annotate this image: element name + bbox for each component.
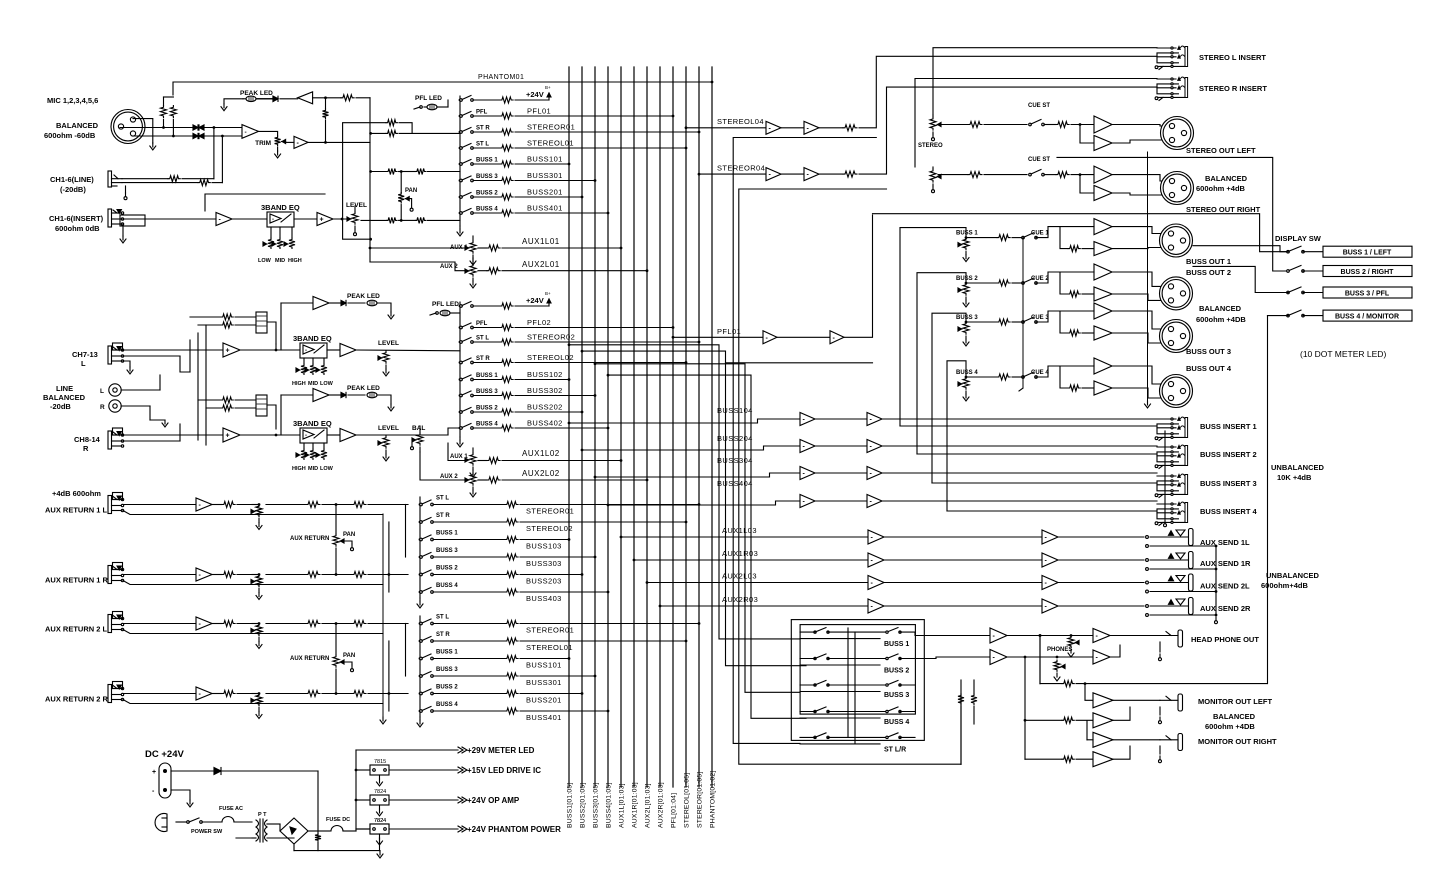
svg-text:STEREOL01: STEREOL01 [527,139,574,148]
svg-text:PHONES: PHONES [1047,647,1072,653]
wire [1036,366,1060,377]
svg-text:BUSS202: BUSS202 [527,403,563,412]
resistor send BUSS202 [500,409,513,415]
svg-text:UNBALANCED: UNBALANCED [1266,571,1319,580]
op-amp AUX RETURN 2 L buffer [196,617,212,630]
resistor BUSS301 [505,673,518,679]
led PFL ch1 [427,104,437,110]
resistor AUX RETURN 1 L a [306,502,320,508]
ground xlr pin1 [133,119,153,143]
op-amp peak ch8 [281,394,313,396]
wire [1113,739,1160,741]
wire BUSS 1 [966,237,997,239]
wire AUX2R03 to jack [1058,605,1144,607]
svg-text:BUSS401: BUSS401 [526,713,562,722]
wire AUX2L03 [646,581,649,584]
wire [368,574,408,576]
wire [900,684,915,686]
ground AUX RETURN 1 R sleeve [123,581,383,585]
wire send row PFL02 [473,327,500,329]
svg-text:STEREOL04: STEREOL04 [717,117,764,126]
wire send bank rail [459,96,461,226]
op-amp PFL b [830,331,844,344]
svg-text:BUSS 3: BUSS 3 [436,548,458,554]
switch return BUSS103 [419,538,422,541]
wire [333,218,350,220]
wire [356,349,460,352]
wire AUX1R03 to jack [1058,559,1144,561]
svg-text:AUX SEND 1R: AUX SEND 1R [1200,559,1251,568]
svg-text:BUSS 1: BUSS 1 [956,231,978,237]
resistor AUX RETURN 2 R a [306,691,320,697]
wire aux1 row ch2 [448,443,466,461]
wire send row STEREOR01 [473,131,500,133]
op-amp AUX1R03 a [868,553,884,567]
svg-text:PFL: PFL [476,110,488,116]
wire [1112,388,1166,398]
svg-text:BUSS 3: BUSS 3 [956,315,978,321]
svg-text:+: + [320,217,324,224]
wire [212,693,222,695]
potentiometer AUX RETURN 2 R level [258,692,261,695]
wire aux1 fan B [388,522,390,592]
wire [212,574,222,576]
resistor send PFL01 [500,113,513,119]
op-amp buss4 insert a [800,495,815,508]
wire [123,574,196,576]
resistor net ch7 b [198,324,221,326]
svg-text:-: - [245,129,247,136]
resistor aux1 ch2 [487,458,500,464]
ground level [354,229,356,233]
diode pair D1 [193,125,198,130]
potentiometer stereo L fader [932,115,934,117]
wire buss4 return riser [947,361,966,511]
svg-text:BUSS 4: BUSS 4 [884,719,909,726]
svg-text:3BAND EQ: 3BAND EQ [293,334,332,343]
svg-text:BUSS 1 / LEFT: BUSS 1 / LEFT [1343,250,1392,257]
op-amp BUSS 3 out hot [1094,303,1112,319]
wire monitor feed L [1039,636,1041,684]
wire [308,141,370,143]
wire [1036,227,1060,238]
potentiometer LEVEL ch1 [352,212,358,224]
svg-text:AUX RETURN: AUX RETURN [290,536,329,542]
potentiometer EQ LOW ch8 [323,443,325,449]
wire to bus STEREOL02 [515,362,686,364]
op-amp AUX RETURN 2 R buffer [196,687,212,700]
resistor line tip [168,176,180,182]
switch display 2 [1287,270,1290,273]
wire [502,270,647,272]
jack BUSS INSERT 4 [1157,503,1176,505]
switch send BUSS101 [459,163,462,166]
svg-text:CUE ST: CUE ST [1028,157,1050,163]
svg-text:BUSS 4: BUSS 4 [436,702,458,708]
svg-text:AUX RETURN 2 L: AUX RETURN 2 L [45,625,108,634]
op-amp BUSS 1 out cold [1094,242,1112,256]
wire matrix lower BUSS 3 [800,691,880,693]
wire BUSS403 [433,591,505,593]
op-amp BUSS 4 out hot [1094,358,1112,374]
op-amp ch8 in [223,428,240,442]
svg-text:FUSE AC: FUSE AC [219,806,243,812]
wire [259,131,278,136]
ground AUX RETURN 2 R sleeve [123,700,383,704]
svg-text:BUSS303: BUSS303 [526,559,562,568]
wire ch7 line [123,349,223,351]
wire send row STEREOL02 [473,362,500,364]
wire AUX RETURN 1 L out [266,504,306,506]
wire row level out [361,219,387,221]
svg-text:HIGH: HIGH [288,258,302,264]
wire cue bus rail [1022,238,1024,388]
meter box BUSS 4 / MONITOR [1323,310,1412,321]
svg-text:AUX RETURN 1 R: AUX RETURN 1 R [45,576,109,585]
wire send row STEREOL01 [473,147,500,149]
wire STEREOR01 [433,623,505,625]
svg-text:PAN: PAN [405,188,417,194]
wire send row PFL01 [473,115,500,117]
wire [212,504,222,506]
wire send row BUSS401 [473,212,500,214]
component balance trim ch7 [256,312,267,333]
wire peak vertical ch7 [280,303,282,350]
resistor BUSS201 [505,691,518,697]
svg-text:LOW: LOW [320,381,334,387]
resistor BUSS 3 inv [1068,330,1080,336]
op-amp ch7 in [223,343,240,357]
op-amp PFL a [763,331,777,344]
jack CH1-6 INSERT [108,209,112,227]
svg-text:BUSS 2 / RIGHT: BUSS 2 / RIGHT [1341,269,1395,276]
wire inv feed R [1080,175,1094,193]
svg-text:BUSS201: BUSS201 [526,696,562,705]
led peak ch7 [348,302,365,304]
wire send row None [473,99,500,101]
wire [781,173,804,175]
wire insert send 3 [882,472,1157,474]
wire buss3 return riser [932,313,966,483]
wire matrix feed buss3 [594,362,597,365]
switch return BUSS101 [419,657,422,660]
svg-text:STEREOL02: STEREOL02 [526,524,573,533]
wire to bus STEREOL01 [515,147,686,149]
switch send STEREOR01 [459,131,462,134]
wire insert return 1 [900,425,1157,427]
wire to bus STEREOR02 [515,341,699,343]
ground return bank [419,717,421,720]
wire +24V row ch1 [515,99,549,101]
wire to bus BUSS203 [520,574,582,576]
svg-text:+: + [226,433,230,440]
ground send bank [459,226,461,229]
wire to bus STEREOR01 [515,131,699,133]
svg-text:STEREO L INSERT: STEREO L INSERT [1199,53,1266,62]
op-amp buss1 insert b [867,413,882,426]
wire [1112,248,1166,249]
wire matrix feed buss4 [607,374,610,377]
wire to bus STEREOR01 [520,623,699,625]
op-amp BUSS 2 out hot [1094,264,1112,280]
wire to bus BUSS401 [515,212,608,214]
wire aux2 row ch1 [370,262,466,271]
wire [171,770,214,772]
wire [267,823,280,825]
resistor aux2 ch2 [487,477,500,483]
svg-text:BUSS302: BUSS302 [527,386,563,395]
wire send row BUSS102 [473,379,500,381]
op-amp AUX RETURN 1 R buffer [196,568,212,581]
potentiometer AUX RETURN 1 L level [258,503,261,506]
resistor pan out top [401,171,415,173]
wire [1112,333,1166,343]
wire insert send 4 [882,500,1157,502]
svg-text:LOW: LOW [258,258,272,264]
wire insert return 3 [932,482,1157,484]
svg-text:AUX RETURN 2 R: AUX RETURN 2 R [45,695,109,704]
svg-text:600ohm+4dB: 600ohm+4dB [1261,581,1308,590]
jack STEREO R INSERT [1157,78,1176,80]
potentiometer AUX1 ch2 [470,453,476,465]
svg-text:3BAND EQ: 3BAND EQ [293,419,332,428]
ground insert jack [122,224,124,236]
svg-text:AUX SEND 2L: AUX SEND 2L [1200,582,1250,591]
wire BUSS 3 [966,321,997,323]
resistor BUSS 1 cue [997,235,1010,241]
potentiometer AUX2 ch1 [470,264,476,276]
wire [212,182,222,184]
wire matrix rail b [854,632,856,743]
switch matrix BUSS 3 L [814,684,816,686]
svg-text:BUSS 4: BUSS 4 [436,583,458,589]
diode D peak [257,98,274,100]
bus BUSS3[01:05] [594,67,596,787]
svg-text:AUX RETURN: AUX RETURN [290,656,329,662]
fuse AC [202,821,222,823]
resistor monitor R cold [1025,758,1062,760]
wire buss2 return riser [917,273,966,454]
op-amp out L cold [1094,136,1112,151]
svg-text:BUSS 3: BUSS 3 [436,667,458,673]
wire [1113,699,1160,701]
jack AUX RETURN 2 R [108,685,112,703]
svg-text:HIGH: HIGH [292,466,306,472]
svg-text:BUSS2[01:05]: BUSS2[01:05] [580,783,587,828]
wire BUSS103 [433,539,505,541]
resistor BUSS 3 cue [997,319,1010,325]
svg-text:BUSS INSERT 2: BUSS INSERT 2 [1200,450,1257,459]
wire mic hot [120,127,242,129]
switch return BUSS201 [419,692,422,695]
wire [815,472,867,474]
wire to bus BUSS201 [515,196,582,198]
fuse DC [331,826,343,832]
switch send STEREOR02 [459,341,462,344]
switch CUE 1 [1022,236,1025,239]
svg-text:+24V: +24V [526,296,544,305]
connector XLR BUSS OUT 4 [1160,375,1193,408]
jack MONITOR OUT RIGHT [1178,734,1183,751]
svg-text:BUSS104: BUSS104 [717,406,753,415]
led peak ch8 [348,394,365,396]
svg-text:MIC 1,2,3,4,5,6: MIC 1,2,3,4,5,6 [47,96,98,105]
wire to bus BUSS302 [515,395,595,397]
wire [356,828,370,830]
wire [123,504,196,506]
resistor AUX RETURN 1 R b [352,572,366,578]
wire AUX RETURN 2 R out [266,693,306,695]
switch send BUSS402 [459,427,462,430]
wire matrix lower BUSS 2 [800,664,880,666]
svg-text:BUSS 4: BUSS 4 [956,370,978,376]
svg-text:600ohm +4DB: 600ohm +4DB [1205,722,1255,731]
resistor BUSS 1 inv [1068,246,1080,252]
svg-text:BUSS402: BUSS402 [527,419,563,428]
svg-text:-20dB: -20dB [50,402,71,411]
wire to bus BUSS303 [520,556,595,558]
svg-text:PFL02: PFL02 [527,318,551,327]
connector XLR BUSS OUT 1 [1160,224,1193,257]
wire feed verticals [189,340,191,372]
wire to R insert send [859,87,1157,174]
bus BUSS1[01:05] [568,67,570,787]
wire PFL rail [873,214,1289,252]
wire AUX SEND 1L return [1146,545,1149,548]
wire stereo L post fader drop [733,138,876,744]
wire [884,536,1042,538]
diode peak ch7 [329,302,341,304]
jack AUX RETURN 2 L [108,615,112,633]
wire [1060,272,1068,294]
diode pair D2 [193,133,198,138]
svg-text:BUSS403: BUSS403 [526,594,562,603]
svg-text:L: L [81,359,86,368]
svg-text:STEREOR01: STEREOR01 [526,507,574,516]
svg-text:AUX2L02: AUX2L02 [522,469,560,478]
op-amp AUX2L03 b [1042,576,1058,590]
switch power [176,821,186,823]
wire stereo L master [685,126,688,129]
svg-text:BALANCED: BALANCED [43,393,86,402]
svg-text:BUSS 3 / PFL: BUSS 3 / PFL [1345,291,1390,298]
svg-text:L: L [100,388,104,395]
jack HEAD PHONE OUT [1178,630,1183,647]
power out +24V opamp [458,797,463,803]
ground battery minus [171,790,190,800]
resistor AUX RETURN 2 L b [352,621,366,627]
wire line ring [122,182,198,184]
svg-text:BUSS OUT 4: BUSS OUT 4 [1186,364,1232,373]
svg-text:AUX1L02: AUX1L02 [522,449,560,458]
svg-text:BUSS 3: BUSS 3 [884,692,909,699]
switch return STEREOR01 [419,503,422,506]
svg-text:BUSS204: BUSS204 [717,434,753,443]
resistor send BUSS101 [500,161,513,167]
wire [1112,311,1166,329]
diode peak ch8 [329,394,341,396]
resistor post pan [401,219,415,221]
wire peak feed ch7 [275,344,277,350]
resistor net ch8 a [198,399,221,401]
wire [212,623,222,625]
wire +24V row ch2 [515,305,549,307]
wire STEREOL01 [433,640,505,642]
wire [322,504,352,506]
wire BUSS 2 [966,282,997,284]
ground ch7 jack [123,361,130,367]
svg-text:STEREOR01: STEREOR01 [527,123,575,132]
wire [1112,193,1169,195]
svg-text:BUSS 2: BUSS 2 [436,685,458,691]
diode D peak [257,98,274,100]
svg-text:AUX2R[01:03]: AUX2R[01:03] [658,782,665,828]
resistor send None [500,303,513,309]
wire AUX SEND 2L return [1146,590,1149,593]
wire [322,623,352,625]
wire [182,178,214,180]
bus STEREOR[01:05] [698,67,700,787]
switch send BUSS201 [459,196,462,199]
svg-text:PFL[01:04]: PFL[01:04] [671,793,678,828]
switch matrix BUSS 1 L [814,631,816,633]
switch send BUSS102 [459,378,462,381]
svg-text:MONITOR OUT LEFT: MONITOR OUT LEFT [1198,697,1272,706]
potentiometer AUX RETURN 1 R level [256,575,262,587]
ground AUX RETURN 2 L sleeve [123,630,383,634]
svg-text:ST L: ST L [436,615,449,621]
wire to bus PFL02 [515,327,673,329]
potentiometer PHONES L [1068,636,1074,647]
resistor STEREOR01 [505,621,518,627]
resistor BUSS303 [505,554,518,560]
wire AUX RETURN 1 R out [266,574,306,576]
svg-text:AUX2L03: AUX2L03 [722,572,757,581]
svg-text:AUX SEND 2R: AUX SEND 2R [1200,604,1251,613]
wire L insert return [933,48,1157,115]
wire [900,736,915,738]
wire ground rail ps [294,850,380,852]
resistor trim top [323,109,329,119]
wire matrix lower BUSS 1 [800,638,880,640]
led PFL ch2 [440,310,450,316]
wire hp out [1110,635,1160,637]
wire display feed 1 [1193,246,1288,252]
svg-text:CUE 1: CUE 1 [1031,231,1049,237]
svg-text:+: + [226,348,230,355]
jack BUSS INSERT 1 [1157,418,1176,420]
wire [267,405,276,429]
svg-text:10K +4dB: 10K +4dB [1277,473,1312,482]
wire [123,218,216,220]
svg-text:ST L: ST L [436,496,449,502]
wire AUX SEND 1R return [1146,568,1149,571]
wire to bus BUSS301 [515,180,595,182]
bus BUSS4[01:05] [607,67,609,787]
wire matrix lower BUSS 4 [800,717,880,719]
wire ground rail aux jacks [382,514,384,717]
op-amp post EQ [317,213,333,226]
wire [1036,311,1060,322]
jack AUX RETURN 1 R [108,566,112,584]
svg-text:BUSS101: BUSS101 [527,155,563,164]
diode D ps [214,768,221,775]
wire return bank rail [419,616,421,717]
svg-text:PHANTOM01: PHANTOM01 [478,74,524,81]
op-amp BUSS 3 out cold [1094,326,1112,340]
wire [819,127,843,129]
wire [884,582,1042,584]
